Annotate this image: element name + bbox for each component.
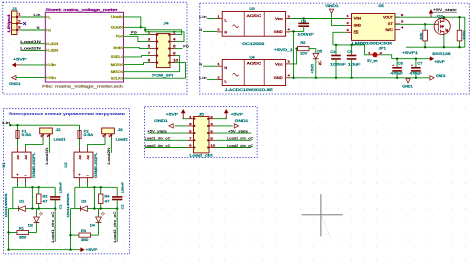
- sheet pin Ld1N: [45, 42, 47, 45]
- J4 pin 4: [170, 41, 175, 43]
- svg-text:PG: PG: [183, 44, 189, 48]
- svg-text:Load_ctrl: Load_ctrl: [189, 154, 213, 158]
- svg-text:6: 6: [173, 45, 176, 49]
- svg-text:Load2_drv_oC: Load2_drv_oC: [145, 144, 171, 148]
- svg-text:6: 6: [210, 129, 213, 133]
- wire J1 pin3 to sheet pin N: [21, 29, 46, 31]
- junction R4 top: [100, 186, 102, 188]
- svg-text:+5V_state: +5V_state: [147, 129, 167, 133]
- sheet pin Uin: [45, 63, 47, 66]
- hierarchical sheet mains_voltage_meter: [45, 12, 123, 82]
- Q1 source wire to +5VP1 rail: [443, 35, 445, 48]
- svg-text:2: 2: [210, 115, 213, 119]
- svg-text:47: 47: [105, 200, 110, 204]
- J5 pin 8: [209, 139, 215, 141]
- connector J3 body: [102, 128, 115, 134]
- svg-text:CE: CE: [354, 31, 359, 35]
- svg-text:+5V_state: +5V_state: [228, 129, 248, 133]
- resistor R3: [79, 233, 91, 237]
- power symbol GND1 (left open arrow): [12, 75, 16, 79]
- J4 pin 7: [150, 55, 156, 57]
- svg-text:GND1: GND1: [436, 74, 446, 78]
- J5 pin 7: [188, 139, 194, 141]
- capacitor C5: [351, 45, 353, 55]
- power symbol +5V_state (up arrow): [430, 10, 433, 17]
- svg-text:L: L: [225, 79, 228, 83]
- junction row B left: [93, 207, 95, 209]
- svg-text:100nF: 100nF: [121, 182, 125, 194]
- capacitor C6 (polarized): [396, 59, 398, 68]
- svg-text:Load1_drv_oC: Load1_drv_oC: [51, 211, 55, 243]
- svg-text:JP1: JP1: [379, 46, 387, 50]
- svg-text:R3: R3: [81, 229, 86, 233]
- junction rail A to bridge: [93, 186, 95, 188]
- svg-text:+: +: [16, 173, 19, 177]
- svg-text:GND1: GND1: [235, 119, 249, 123]
- wire Lin to U4 pin 2: [207, 79, 217, 81]
- svg-text:10k: 10k: [419, 32, 423, 40]
- svg-text:Q1: Q1: [437, 15, 444, 19]
- svg-text:1: 1: [189, 115, 192, 119]
- wire PG label to J4 pin 1: [130, 34, 151, 36]
- capacitor C7 (polarized): [415, 59, 417, 68]
- J4 pin 5: [150, 48, 156, 50]
- U1 pins top: [17, 147, 19, 152]
- J4 pin 10: [170, 62, 175, 64]
- junction rail bottom: [7, 249, 9, 251]
- J2 pin 2: [48, 134, 50, 138]
- load switch U6 body: [352, 14, 396, 41]
- note box: top-left section outline: [3, 2, 187, 94]
- J5 pin 5: [188, 132, 194, 134]
- sheet pin L: [45, 15, 47, 18]
- svg-text:7: 7: [148, 52, 151, 56]
- svg-text:5: 5: [189, 129, 192, 133]
- sheet pin Gout: [121, 26, 123, 29]
- wire J2 pin1 to U1: [26, 138, 44, 147]
- J3 pin 1: [104, 134, 106, 138]
- J4 pin 2: [170, 34, 175, 36]
- wire sheet Int to J4 pin 5: [124, 47, 151, 50]
- junction C4 top: [335, 44, 337, 46]
- svg-text:1N4148WS: 1N4148WS: [66, 194, 70, 218]
- junction +5VD_1: [295, 47, 297, 49]
- svg-text:C3: C3: [301, 19, 306, 23]
- junction C6 top: [396, 58, 398, 60]
- left +5VP rail vertical: [8, 209, 10, 250]
- wire drive stub Load1_drv_oC: [54, 209, 56, 242]
- svg-text:Load1_drv_oC: Load1_drv_oC: [145, 137, 171, 141]
- svg-text:360: 360: [19, 236, 27, 240]
- svg-text:Int: Int: [113, 46, 121, 50]
- svg-text:8: 8: [210, 137, 213, 141]
- power symbol +5VP (left arrow): [13, 63, 21, 66]
- junction rail bottom: [69, 249, 71, 251]
- AC/DC module U4 body: [222, 60, 285, 86]
- no-connect X on J1 pin 2: [23, 22, 26, 25]
- capacitor C1: [54, 187, 56, 196]
- svg-text:SSEL: SSEL: [111, 55, 121, 59]
- svg-text:LiNput: LiNput: [7, 14, 11, 32]
- junction rail A to bridge: [31, 186, 33, 188]
- cursor crosshair: [302, 194, 343, 236]
- diode D3 1N4148WS: [71, 208, 81, 210]
- svg-text:D4: D4: [90, 223, 95, 227]
- junction F1 top: [16, 124, 18, 126]
- junction on Gout branch: [144, 29, 146, 31]
- diode D4 LED: [98, 209, 100, 217]
- svg-text:C7: C7: [417, 61, 422, 65]
- wire drive stub Load2_drv_oC: [116, 209, 118, 242]
- diode D5 (LED): [315, 49, 317, 54]
- J3 pin 2: [110, 134, 112, 138]
- Q1 drain wire to VOUT rail: [443, 17, 445, 18]
- wire +5VP to sheet pin Uin: [21, 64, 46, 66]
- junction C6 ground: [396, 77, 398, 79]
- wire Load2N to sheet pin Ld2N: [20, 49, 45, 51]
- U1 pins bottom: [17, 178, 19, 183]
- svg-text:Load2N: Load2N: [107, 147, 111, 165]
- svg-text:J4: J4: [163, 21, 168, 25]
- junction R4 bottom: [100, 207, 102, 209]
- svg-text:-: -: [24, 173, 27, 177]
- sheet pin MISO: [121, 70, 123, 73]
- svg-text:PG: PG: [131, 31, 137, 35]
- svg-text:MOSI: MOSI: [111, 63, 121, 67]
- svg-text:470uF: 470uF: [410, 72, 422, 76]
- junction C5 top: [350, 44, 352, 46]
- junction C4 ground: [335, 77, 337, 79]
- svg-text:9: 9: [189, 144, 192, 148]
- svg-text:Lin: Lin: [199, 15, 207, 19]
- sheet pin SCLK: [121, 77, 123, 80]
- wire J3 pin2 Load2N stub: [110, 138, 112, 153]
- sheet pin SSEL: [121, 55, 123, 58]
- junction at Uout/Gout: [140, 26, 142, 28]
- junction C5 ground: [350, 77, 352, 79]
- row B wire: [32, 208, 55, 210]
- wire Lin to U3 pin 1: [207, 18, 217, 20]
- svg-text:C5: C5: [347, 50, 352, 54]
- J4 pin 1: [150, 34, 156, 36]
- fuse F1: [17, 125, 19, 130]
- note box: power supply section outline: [200, 3, 470, 94]
- junction U4 GND: [292, 77, 294, 79]
- svg-text:VIN: VIN: [354, 17, 362, 21]
- sheet pin Int: [121, 46, 123, 49]
- U4 pin 4: [286, 77, 291, 79]
- junction C3 top: [303, 17, 305, 19]
- row B wire: [94, 208, 117, 210]
- junction C1 bottom / drive tap: [54, 207, 56, 209]
- svg-text:3: 3: [148, 38, 151, 42]
- svg-text:ST: ST: [388, 22, 393, 26]
- sheet pin PG: [121, 35, 123, 38]
- svg-text:C6: C6: [398, 61, 403, 65]
- svg-text:G3MB-202PL: G3MB-202PL: [94, 152, 98, 178]
- wire U3 GND down to ground rail: [293, 31, 295, 77]
- wire sheet SCLK to J4 pin 10: [124, 63, 186, 79]
- wire Load1N to sheet pin Ld1N: [20, 43, 45, 45]
- U6 pin 5: [395, 23, 400, 25]
- svg-text:470uF: 470uF: [391, 72, 403, 76]
- wire J5 pin9 Load2_drv_oC: [145, 147, 188, 149]
- svg-text:Ld2N: Ld2N: [48, 49, 59, 53]
- wire J4 pin 6 stub: [175, 48, 183, 50]
- svg-text:Load1N: Load1N: [45, 147, 49, 165]
- svg-text:Load1N: Load1N: [20, 40, 41, 44]
- J1 pin 2: [12, 23, 23, 25]
- wire branch to J4 pin 4: [145, 30, 184, 42]
- svg-text:U2: U2: [64, 162, 68, 167]
- U3 pin 3: [286, 18, 291, 20]
- J1 pin 3: [12, 29, 21, 31]
- +5VD rail: [333, 44, 365, 46]
- wire U3 Vcc rail to U6 VIN: [290, 18, 346, 20]
- wire J5 pin10 Load2_drv_oC: [215, 147, 252, 149]
- svg-text:Lin: Lin: [34, 13, 41, 17]
- svg-text:2: 2: [18, 19, 21, 23]
- connector J5 body: [194, 116, 210, 152]
- wire sheet PG to J4 pin 3: [124, 36, 151, 41]
- svg-text:47: 47: [43, 200, 48, 204]
- junction R7 bottom: [424, 46, 426, 48]
- svg-text:-: -: [86, 173, 89, 177]
- junction Q1 drain: [443, 16, 445, 18]
- top mains wire: [10, 124, 79, 126]
- svg-text:R4: R4: [105, 194, 110, 198]
- wire bridge rail A to row B: [31, 187, 33, 208]
- J5 pin 1: [188, 118, 194, 120]
- junction Q1 source: [443, 46, 445, 48]
- junction R7 top: [424, 23, 426, 25]
- wire +5VD rail to jumper JP1: [365, 45, 370, 55]
- svg-text:J1: J1: [12, 7, 17, 11]
- J5 pin 4: [209, 125, 215, 127]
- svg-text:100k: 100k: [462, 30, 466, 40]
- svg-text:D1: D1: [19, 200, 24, 204]
- power symbol +5VP bottom (right arrow): [78, 248, 84, 251]
- transistor Q1 BSS138: [434, 18, 450, 34]
- junction R9 bottom: [458, 46, 460, 48]
- svg-text:U3: U3: [250, 7, 255, 11]
- svg-text:Uin: Uin: [48, 63, 56, 67]
- J5 pin 10: [209, 147, 215, 149]
- wire relay output rail A: [17, 183, 19, 188]
- wire J5 pin4 to GND1: [215, 125, 233, 127]
- svg-text:+5VP: +5VP: [13, 57, 28, 61]
- resistor R2: [36, 194, 41, 204]
- connector J4 body: [156, 34, 170, 68]
- junction C7 ground: [415, 77, 417, 79]
- resistor R5: [298, 47, 310, 51]
- note box: electronic load switches outline: [4, 109, 130, 254]
- resistor R1: [17, 230, 29, 234]
- junction at Lin label: [9, 124, 11, 126]
- bottom +5VP rail: [9, 249, 79, 251]
- wire J5 pin7 Load1_drv_oC: [145, 139, 188, 141]
- svg-text:J2: J2: [56, 128, 61, 132]
- svg-text:GND1: GND1: [402, 84, 413, 88]
- svg-text:R1: R1: [19, 227, 24, 231]
- junction R1 left: [7, 231, 9, 233]
- wire J5 pin8 Load1_drv_oC: [215, 139, 252, 141]
- svg-text:SCLK: SCLK: [111, 77, 122, 81]
- U4 pin 1: [217, 65, 222, 67]
- left +5VP rail vertical: [70, 209, 72, 250]
- connector J1 body: [12, 11, 18, 35]
- svg-text:GND1: GND1: [154, 119, 168, 123]
- power symbol GND1 right of J5: [234, 124, 238, 128]
- svg-text:5: 5: [148, 45, 151, 49]
- svg-text:+5VD: +5VD: [310, 63, 314, 74]
- wire sheet Gout to J4 pin 2: [124, 27, 182, 34]
- svg-text:J3: J3: [118, 128, 123, 132]
- capacitor C3: [303, 19, 305, 23]
- diode D2 LED: [36, 209, 38, 217]
- svg-text:1: 1: [18, 13, 21, 17]
- svg-text:GND: GND: [274, 30, 283, 34]
- capacitor C4: [335, 45, 337, 55]
- connector J2 body: [40, 128, 53, 134]
- svg-text:N/C: N/C: [386, 28, 394, 32]
- wire U6 CE to +5VD rail: [333, 32, 346, 45]
- wire J3 pin1 to U2: [88, 138, 106, 147]
- svg-text:Load2_drv_oC: Load2_drv_oC: [227, 144, 254, 148]
- wire GND1 to U6 GND pin: [332, 13, 347, 25]
- sheet pin Uout: [121, 15, 123, 18]
- svg-text:+5VP1: +5VP1: [402, 51, 418, 55]
- svg-text:4: 4: [173, 38, 176, 42]
- wire D5 to ground rail: [315, 59, 317, 78]
- sheet pin GIn: [45, 76, 47, 79]
- wire U3 GND to C3 bottom: [290, 30, 303, 32]
- svg-text:D3: D3: [81, 200, 86, 204]
- power symbol +5VP (right arrow): [429, 57, 433, 60]
- J4 pin 3: [150, 41, 156, 43]
- J1 pin 1: [12, 16, 21, 18]
- svg-text:J5: J5: [199, 112, 204, 116]
- junction R2 bottom: [38, 207, 40, 209]
- svg-text:J-ACDC10W201D-8E: J-ACDC10W201D-8E: [225, 88, 274, 92]
- svg-text:9: 9: [148, 59, 151, 63]
- svg-text:Load1: Load1: [54, 138, 66, 142]
- svg-text:+5VP: +5VP: [166, 112, 179, 116]
- wire VOUT rail down right side: [464, 17, 466, 47]
- junction row B left: [31, 207, 33, 209]
- wire J5 pin1 to +5VP: [183, 118, 187, 119]
- wire N to U4 pin 1: [203, 65, 217, 67]
- svg-text:AC: AC: [24, 154, 28, 160]
- wire relay output rail A: [79, 183, 81, 188]
- wire bridge rail A to row B: [93, 187, 95, 208]
- U2 pins top: [79, 147, 81, 152]
- junction R2 top: [38, 186, 40, 188]
- svg-text:8: 8: [173, 52, 176, 56]
- svg-text:Vcc: Vcc: [275, 17, 283, 21]
- wire GND1 to sheet pin GIn: [16, 77, 45, 79]
- svg-text:+5VP: +5VP: [86, 248, 99, 252]
- U3 pin 2: [217, 31, 222, 33]
- svg-text:BSS138: BSS138: [432, 52, 450, 56]
- svg-text:GND1: GND1: [325, 4, 338, 8]
- svg-text:10V: 10V: [300, 52, 308, 56]
- svg-text:G3MB-202PL: G3MB-202PL: [32, 152, 36, 178]
- svg-text:100nF: 100nF: [59, 182, 63, 194]
- svg-text:Uout: Uout: [111, 15, 121, 19]
- svg-text:Load2: Load2: [116, 138, 128, 142]
- wire sheet SSEL to J4 pin 7: [124, 56, 151, 57]
- power symbol +5VP left of J5: [182, 110, 185, 119]
- svg-text:C1: C1: [59, 204, 63, 209]
- junction C2 bottom / drive tap: [116, 207, 118, 209]
- J5 pin 9: [188, 147, 194, 149]
- wire J5 pin6 +5V_state: [215, 132, 252, 134]
- capacitor C2: [116, 187, 118, 196]
- U6 pin 2: [346, 24, 351, 26]
- svg-text:+5VP: +5VP: [434, 60, 445, 64]
- U6 pin 6: [395, 16, 400, 18]
- svg-text:DC12003: DC12003: [242, 42, 264, 46]
- svg-text:Load2_drv_oC: Load2_drv_oC: [113, 211, 117, 243]
- wire sheet Uout down to Gout wire: [124, 17, 141, 27]
- svg-text:7: 7: [189, 137, 192, 141]
- svg-text:Ld1N: Ld1N: [48, 42, 59, 46]
- diode D1 1N4148WS: [9, 208, 19, 210]
- wire J5 pin5 +5V_state: [148, 132, 188, 134]
- svg-text:Load1_drv_oC: Load1_drv_oC: [227, 137, 254, 141]
- power symbol +5VP right of J5: [225, 110, 228, 119]
- J5 pin 6: [209, 132, 215, 134]
- svg-text:Электронные ключи управления н: Электронные ключи управления нагрузками: [8, 111, 125, 116]
- wire top mains to channel 2 fuse: [79, 125, 81, 130]
- svg-text:Lin: Lin: [199, 76, 207, 80]
- junction R3 left: [69, 234, 71, 236]
- junction R9 top: [458, 16, 460, 18]
- wire R5 to D5: [309, 48, 316, 50]
- svg-text:Vcc: Vcc: [275, 62, 283, 66]
- wire J5 pin2 to +5VP: [215, 118, 227, 119]
- svg-text:10uF: 10uF: [348, 63, 361, 67]
- wire J1 pin1 to sheet pin L: [21, 16, 46, 18]
- svg-text:Load2N: Load2N: [20, 47, 41, 51]
- svg-text:0.5A: 0.5A: [22, 133, 33, 137]
- wire U6 VOUT rail: [395, 16, 465, 18]
- +5VP1 rail: [406, 46, 465, 48]
- svg-text:0.5A: 0.5A: [84, 133, 95, 137]
- ground rail GND1: [290, 77, 430, 79]
- svg-text:GND1: GND1: [9, 82, 21, 86]
- svg-text:10: 10: [173, 59, 178, 63]
- relay U2 body: [74, 152, 93, 178]
- svg-text:100nF: 100nF: [297, 33, 313, 37]
- svg-text:3: 3: [189, 122, 192, 126]
- solder jumper JP1: [369, 54, 372, 56]
- svg-text:N: N: [37, 26, 40, 30]
- +5VP rail: [392, 58, 429, 60]
- wire JP1 to +5VP rail: [381, 55, 392, 59]
- junction U3 GND vertical: [292, 30, 294, 32]
- svg-text:Sheet: mains_voltage_meter: Sheet: mains_voltage_meter: [46, 8, 119, 12]
- wire sheet MOSI to J4 pin 9: [124, 63, 151, 65]
- svg-text:+5VP: +5VP: [231, 112, 244, 116]
- svg-text:GIn: GIn: [48, 76, 56, 80]
- svg-text:GND: GND: [354, 24, 362, 28]
- sheet pin N: [45, 28, 47, 31]
- svg-text:GND: GND: [274, 76, 283, 80]
- svg-text:AC: AC: [86, 154, 90, 160]
- J4 pin 8: [170, 55, 175, 57]
